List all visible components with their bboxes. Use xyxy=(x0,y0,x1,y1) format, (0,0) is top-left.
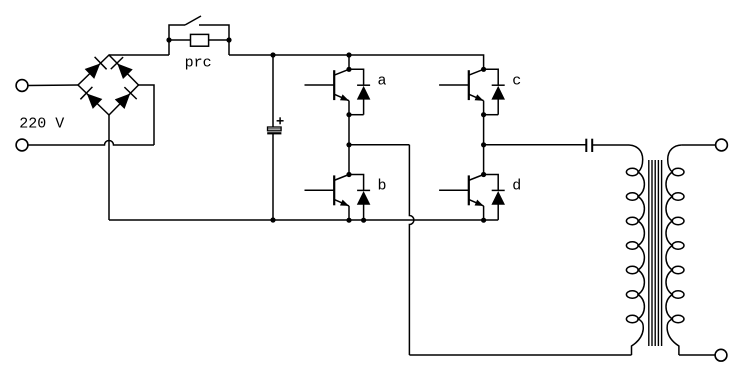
svg-text:c: c xyxy=(512,73,521,90)
wire: switch right branch xyxy=(199,25,229,40)
junction: top rail / leg a xyxy=(346,52,351,57)
wire: transistor b emitter lead xyxy=(348,206,350,220)
junction: bottom rail / filter cap xyxy=(270,217,275,222)
wire: diode a bottom to emitter node xyxy=(349,114,364,116)
junction: d emitter to bottom rail xyxy=(481,218,486,223)
wire: secondary bottom to output terminal xyxy=(679,354,715,356)
output terminal (bottom) xyxy=(715,349,727,361)
junction: b diode to bottom rail xyxy=(361,218,366,223)
junction: c emitter node xyxy=(481,112,486,117)
freewheel diode of a xyxy=(349,69,370,114)
wire: resistor left lead xyxy=(169,39,191,41)
capacitor C1 negative plate xyxy=(267,132,281,134)
AC input terminal (neutral) xyxy=(16,139,28,151)
wire: resistor right lead xyxy=(209,39,229,41)
transformer T1 secondary winding xyxy=(666,145,684,355)
transformer T1 core xyxy=(649,160,662,346)
transistor d xyxy=(439,175,484,206)
transistor a xyxy=(305,69,350,100)
switch S1 blade (open) xyxy=(185,16,201,25)
wire: prc left riser xyxy=(168,40,170,55)
capacitor C1 electrolytic, + plate xyxy=(268,127,282,131)
bridge diode D2 (right to top) xyxy=(111,57,132,78)
junction: transistor d collector node xyxy=(481,172,486,177)
freewheel diode of c xyxy=(484,69,505,114)
wire: secondary top to output terminal xyxy=(681,144,715,146)
bridge diode D1 (left to top) xyxy=(85,57,106,78)
junction: left leg output node xyxy=(346,142,351,147)
transformer T1 primary winding xyxy=(626,145,644,355)
wire: filter cap top lead xyxy=(272,55,274,127)
svg-text:b: b xyxy=(378,178,387,195)
svg-text:d: d xyxy=(512,178,521,195)
wire: rail to transistor a xyxy=(348,55,350,69)
wire: top terminal to bridge left vertex xyxy=(28,84,78,87)
freewheel diode of b xyxy=(349,175,370,220)
wire: top DC rail to leg c xyxy=(229,55,484,69)
wire: bridge top to prc left xyxy=(109,54,169,56)
wire: left output node down-link, hops over bottom rail xyxy=(409,145,414,355)
junction: b emitter to bottom rail xyxy=(346,218,351,223)
bridge diode D3 (bottom to left) xyxy=(80,87,101,108)
wire: bottom terminal to x=154 riser, hops over bridge output xyxy=(28,141,154,146)
wire: riser to bridge right vertex xyxy=(139,85,155,145)
junction: transistor c collector node xyxy=(481,67,486,72)
junction: right leg output node xyxy=(481,142,486,147)
wire: leg c-d midpoint wire xyxy=(483,115,485,175)
junction: transistor a collector node xyxy=(346,67,351,72)
wire: leg a-b midpoint wire xyxy=(348,115,350,175)
AC input terminal (line) xyxy=(16,80,28,92)
freewheel diode of d xyxy=(484,175,505,220)
wire: transistor a emitter lead xyxy=(348,101,350,115)
transistor b xyxy=(305,175,350,206)
wire: transistor d emitter lead xyxy=(483,206,485,220)
transistor c xyxy=(439,69,484,100)
output terminal (top) xyxy=(716,139,728,151)
junction: prc left node xyxy=(166,37,171,42)
wire: bridge negative output down to bottom rail xyxy=(108,115,110,220)
wire: coupling cap to transformer primary xyxy=(592,144,629,146)
resistor prc body xyxy=(191,34,209,46)
wire: filter cap bottom lead xyxy=(272,133,274,220)
svg-text:a: a xyxy=(378,73,387,90)
wire: bottom link to transformer primary xyxy=(409,354,631,356)
svg-text:prc: prc xyxy=(185,55,212,72)
wire: right leg output to coupling cap xyxy=(484,144,587,146)
capacitor C2 coupling xyxy=(586,139,592,152)
wire: bottom DC rail xyxy=(109,219,498,221)
wire: diode c bottom to emitter node xyxy=(484,114,499,116)
bridge rectifier diamond wires xyxy=(78,55,139,115)
svg-text:220 V: 220 V xyxy=(19,116,64,133)
junction: transistor b collector node xyxy=(346,172,351,177)
capacitor C1 polarity + xyxy=(277,117,284,124)
wire: left leg output to down-link xyxy=(349,144,409,146)
junction: a emitter node xyxy=(346,112,351,117)
junction: top rail / filter cap xyxy=(270,52,275,57)
junction: prc right node xyxy=(226,37,231,42)
bridge diode D4 (bottom to right) xyxy=(115,87,136,108)
wire: prc right riser xyxy=(228,40,230,55)
wire: transistor c emitter lead xyxy=(483,101,485,115)
wire: switch left branch xyxy=(169,25,185,40)
